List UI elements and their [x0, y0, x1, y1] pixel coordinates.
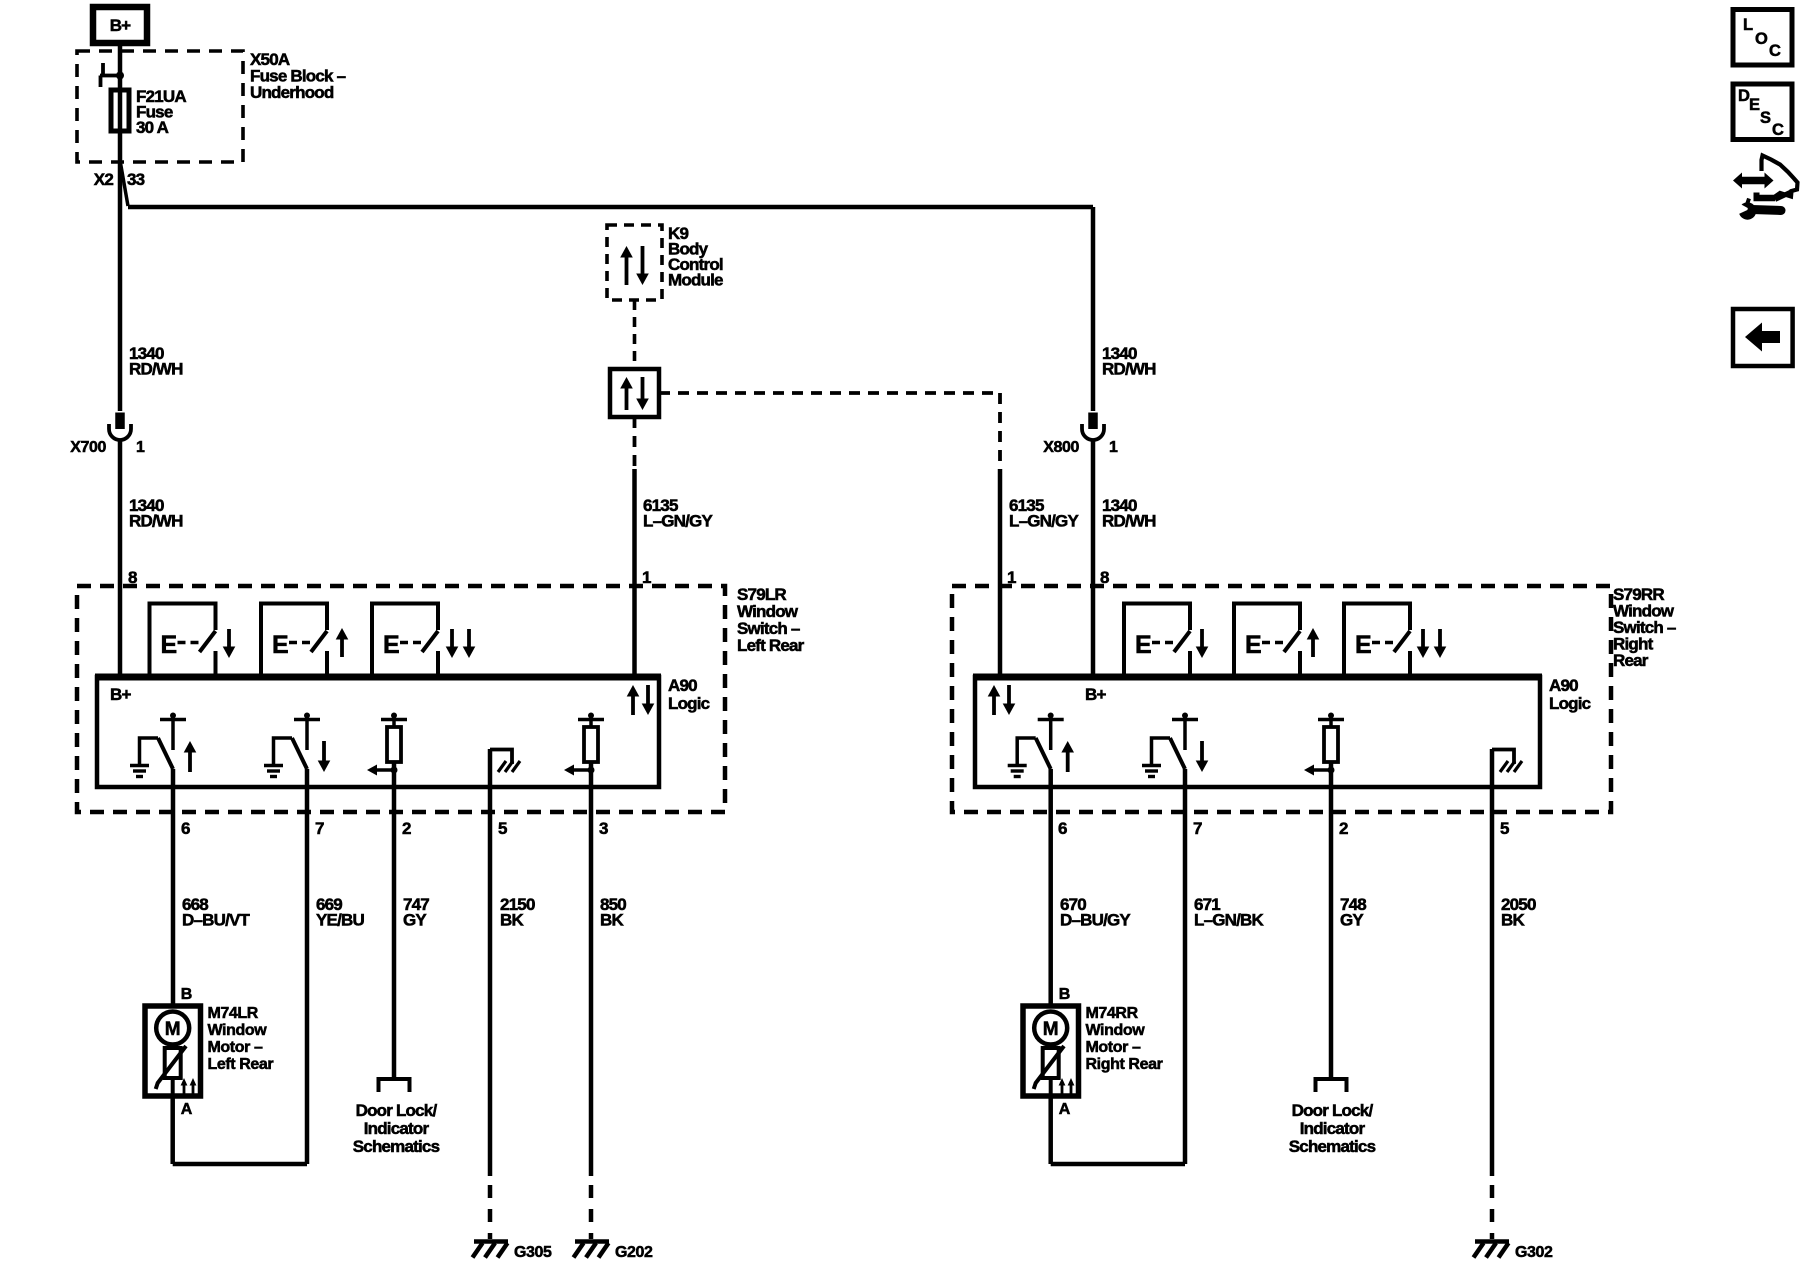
window motor M74LR	[145, 986, 273, 1118]
window switch S79LR dashed boundary	[77, 585, 805, 812]
svg-text:GY: GY	[403, 911, 427, 930]
svg-text:C: C	[1772, 121, 1784, 139]
arrow double-down after right S3	[1417, 629, 1447, 658]
wire motor A to pin 7 right	[1051, 1096, 1185, 1164]
svg-text:33: 33	[127, 170, 145, 189]
wire 748 GY pin 2 to door lock	[1331, 787, 1366, 1079]
svg-text:RD/WH: RD/WH	[129, 512, 183, 531]
svg-text:2: 2	[402, 819, 411, 838]
svg-text:B+: B+	[110, 16, 131, 35]
svg-text:Schematics: Schematics	[1289, 1137, 1376, 1156]
wire branch slant at X2	[121, 163, 129, 206]
svg-text:A: A	[1059, 1101, 1071, 1118]
fuse F21UA 30 A	[111, 87, 186, 137]
svg-text:L–GN/GY: L–GN/GY	[1009, 512, 1079, 531]
svg-text:B+: B+	[110, 685, 131, 704]
terminal clip at fuse block	[100, 63, 124, 87]
switch contact up left S2	[261, 604, 327, 678]
wire 6135 dashed to left switch	[633, 417, 637, 469]
svg-text:Door Lock/: Door Lock/	[1292, 1101, 1374, 1120]
svg-text:X2: X2	[94, 170, 114, 189]
resistor output right (pin 2)	[1304, 713, 1344, 788]
wire 6135 L-GN/GY left switch pin 1	[635, 469, 714, 677]
wire label 1340 RD/WH left upper	[129, 344, 183, 379]
switch contact express-down right S3	[1344, 604, 1410, 678]
svg-text:Rear: Rear	[1613, 651, 1649, 670]
arrow up after right S2	[1311, 640, 1315, 658]
svg-text:B: B	[181, 986, 192, 1003]
svg-text:Logic: Logic	[1549, 694, 1591, 713]
wire 669 YE/BU pin 7 to motor return	[307, 787, 364, 1164]
up-down arrows at right switch pin 1	[988, 685, 1016, 715]
arrow double-down after S3	[446, 629, 476, 658]
icon back button	[1733, 309, 1793, 366]
arrow up after S2	[340, 640, 344, 658]
svg-text:RD/WH: RD/WH	[129, 360, 183, 379]
svg-text:E: E	[1135, 631, 1151, 659]
svg-text:6: 6	[1058, 819, 1067, 838]
svg-text:A90: A90	[1549, 676, 1578, 695]
wire branch to right window switch	[128, 205, 1093, 210]
svg-text:D–BU/GY: D–BU/GY	[1060, 911, 1131, 930]
svg-text:Window: Window	[208, 1022, 268, 1039]
svg-text:YE/BU: YE/BU	[316, 911, 364, 930]
svg-text:X800: X800	[1043, 439, 1079, 456]
svg-text:7: 7	[315, 819, 324, 838]
svg-text:E: E	[161, 631, 177, 659]
svg-text:BK: BK	[600, 911, 624, 930]
svg-text:Left Rear: Left Rear	[737, 636, 805, 655]
arrow down after S1	[227, 629, 231, 647]
svg-text:E: E	[1355, 631, 1371, 659]
svg-text:GY: GY	[1340, 911, 1364, 930]
svg-text:Schematics: Schematics	[353, 1137, 440, 1156]
icon DESC button	[1733, 84, 1792, 140]
switch contact down left S1	[150, 604, 216, 678]
wire B+ to fuse F21UA	[118, 43, 123, 411]
wire 6135 dashed to right switch	[659, 393, 1000, 469]
svg-text:M: M	[165, 1019, 181, 1040]
svg-text:Indicator: Indicator	[364, 1119, 430, 1138]
svg-text:Motor –: Motor –	[1086, 1039, 1141, 1056]
resistor output left (pin 3)	[564, 713, 604, 788]
body control module K9	[607, 224, 723, 300]
svg-text:RD/WH: RD/WH	[1102, 512, 1156, 531]
internal ground left (pin 5)	[490, 749, 520, 787]
svg-text:Module: Module	[668, 271, 723, 290]
connector to door lock schematics right	[1316, 1079, 1347, 1092]
svg-text:E: E	[383, 631, 399, 659]
svg-text:G302: G302	[1515, 1244, 1553, 1261]
ground G202	[574, 1242, 654, 1262]
node B+ battery terminal	[93, 7, 147, 43]
internal ground right (pin 5)	[1492, 749, 1522, 787]
svg-text:C: C	[1769, 42, 1781, 60]
connector X700 pin 1	[70, 413, 145, 457]
svg-text:Door Lock/: Door Lock/	[356, 1101, 438, 1120]
icon LOC button	[1733, 10, 1792, 66]
svg-text:Indicator: Indicator	[1300, 1119, 1366, 1138]
svg-text:A90: A90	[668, 676, 697, 695]
svg-text:G202: G202	[615, 1244, 653, 1261]
wire 747 GY pin 2 to door lock	[394, 787, 429, 1079]
svg-text:A: A	[181, 1101, 193, 1118]
svg-text:M74LR: M74LR	[208, 1005, 259, 1022]
svg-text:L–GN/BK: L–GN/BK	[1194, 911, 1265, 930]
svg-text:E: E	[272, 631, 288, 659]
up-down arrows at left switch pin 1	[627, 685, 655, 715]
svg-text:B+: B+	[1085, 685, 1106, 704]
ground G305	[473, 1242, 553, 1262]
svg-text:3: 3	[599, 819, 608, 838]
switch contact up right S2	[1234, 604, 1300, 678]
svg-text:BK: BK	[1501, 911, 1525, 930]
wire 2050 BK pin 5 to ground G302	[1492, 787, 1536, 1239]
svg-text:5: 5	[498, 819, 507, 838]
switch contact down right S1	[1124, 604, 1190, 678]
svg-text:1: 1	[1109, 439, 1118, 456]
logic block A90 right	[973, 677, 1542, 787]
svg-text:L–GN/GY: L–GN/GY	[643, 512, 713, 531]
wire 670 D-BU/GY pin 6 to motor	[1051, 787, 1132, 1006]
svg-text:M: M	[1043, 1019, 1059, 1040]
wire 1340 RD/WH to right switch pin 8	[1093, 441, 1156, 677]
label door lock schematics left	[353, 1101, 440, 1156]
connector to door lock schematics left	[379, 1079, 410, 1092]
svg-text:Right Rear: Right Rear	[1086, 1056, 1163, 1073]
wire 1340 RD/WH to left switch pin 8	[120, 441, 183, 677]
up driver switch right (pin 6)	[1008, 713, 1074, 788]
svg-text:7: 7	[1193, 819, 1202, 838]
svg-text:Left Rear: Left Rear	[208, 1056, 274, 1073]
svg-text:S: S	[1760, 109, 1771, 127]
svg-text:B: B	[1059, 986, 1070, 1003]
connector X2 pin 33 labels	[94, 170, 145, 189]
down driver switch right (pin 7)	[1142, 713, 1208, 788]
svg-text:2: 2	[1339, 819, 1348, 838]
wire 850 BK pin 3 to ground G202	[591, 787, 626, 1239]
svg-text:BK: BK	[500, 911, 524, 930]
svg-text:Motor –: Motor –	[208, 1039, 263, 1056]
window logic interface box U1	[610, 369, 659, 417]
svg-text:1: 1	[642, 568, 651, 587]
icon jump-to-wiring with wrench	[1733, 156, 1798, 220]
window switch S79RR dashed boundary	[952, 585, 1676, 812]
svg-text:X700: X700	[70, 439, 106, 456]
svg-text:L: L	[1743, 16, 1753, 34]
fuse block X50A dashed boundary	[77, 50, 346, 162]
wire 6135 L-GN/GY right switch pin 1	[1000, 469, 1079, 677]
svg-text:6: 6	[181, 819, 190, 838]
connector X800 pin 1	[1043, 413, 1118, 457]
svg-text:D–BU/VT: D–BU/VT	[182, 911, 251, 930]
label A90 Logic left	[668, 676, 710, 713]
ground G302	[1474, 1242, 1554, 1262]
resistor output left (pin 2)	[367, 713, 407, 788]
wire motor A to pin 7 left	[173, 1096, 307, 1164]
svg-text:30 A: 30 A	[136, 118, 169, 137]
label door lock schematics right	[1289, 1101, 1376, 1156]
logic block A90 left	[95, 677, 661, 787]
wire K9 to window logic dashed	[633, 300, 637, 369]
svg-text:1: 1	[136, 439, 145, 456]
svg-text:M74RR: M74RR	[1086, 1005, 1139, 1022]
svg-text:E: E	[1245, 631, 1261, 659]
wire 671 L-GN/BK pin 7 to motor return	[1185, 787, 1265, 1164]
up driver switch left (pin 6)	[130, 713, 196, 788]
svg-text:RD/WH: RD/WH	[1102, 360, 1156, 379]
arrow down after right S1	[1200, 629, 1204, 647]
window motor M74RR	[1023, 986, 1163, 1118]
label A90 Logic right	[1549, 676, 1591, 713]
down driver switch left (pin 7)	[264, 713, 330, 788]
svg-text:O: O	[1755, 30, 1768, 48]
svg-text:Window: Window	[1086, 1022, 1146, 1039]
switch contact express-down left S3	[372, 604, 438, 678]
wire 2150 BK pin 5 to ground G305	[490, 787, 535, 1239]
wire 1340 RD/WH right drop	[1093, 207, 1156, 411]
wire 668 D-BU/VT pin 6 to motor	[173, 787, 251, 1006]
svg-text:G305: G305	[514, 1244, 552, 1261]
svg-text:E: E	[1749, 96, 1760, 114]
svg-text:Underhood: Underhood	[250, 83, 334, 102]
svg-text:Logic: Logic	[668, 694, 710, 713]
svg-text:5: 5	[1500, 819, 1509, 838]
